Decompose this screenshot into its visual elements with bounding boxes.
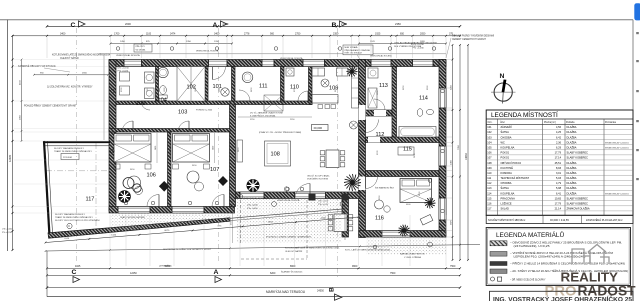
svg-text:– OBVODOVÉ ZDIVO Z HELUZ FAMI: – OBVODOVÉ ZDIVO Z HELUZ FAMILY 25 BROUŠ…	[510, 242, 622, 245]
summary strip below room legend	[486, 215, 633, 223]
dimension line along awning	[46, 217, 359, 243]
svg-text:ŠIK RAMPA VIZ ŘEZ: ŠIK RAMPA VIZ ŘEZ	[169, 140, 172, 158]
svg-text:SLABÝ KOBEREC: SLABÝ KOBEREC	[567, 196, 589, 200]
svg-text:(247x250x249), U=0,25: (247x250x249), U=0,25	[514, 246, 551, 248]
svg-text:A: A	[213, 22, 218, 29]
svg-text:110: 110	[290, 85, 299, 91]
svg-text:N: N	[500, 73, 505, 80]
kitchen island	[310, 95, 338, 104]
terrace dashed boundary south	[241, 258, 307, 260]
svg-text:2650: 2650	[82, 73, 88, 75]
terrace door swing	[295, 184, 310, 199]
partition rooms 106/107	[168, 132, 172, 207]
svg-text:114: 114	[419, 96, 428, 102]
fixture room 110	[286, 68, 294, 76]
svg-text:115: 115	[403, 147, 412, 153]
right wing wall below 113	[366, 110, 393, 116]
svg-text:108: 108	[271, 152, 280, 158]
partition 102/101	[205, 67, 208, 102]
svg-text:1925: 1925	[375, 32, 381, 35]
brushed concrete strip below room 116	[366, 237, 446, 255]
svg-text:UTe -0,020: UTe -0,020	[247, 205, 258, 207]
svg-text:V CEM. STĚRKA: V CEM. STĚRKA	[404, 256, 421, 259]
prilozky box top	[134, 44, 152, 52]
washer room 113	[368, 68, 378, 78]
partition 110/109	[309, 67, 313, 105]
svg-text:1100: 1100	[146, 32, 152, 35]
double bed room 106	[114, 134, 151, 163]
svg-text:PŘEDZAHRÁDKY OSÁZENÁ: PŘEDZAHRÁDKY OSÁZENÁ	[345, 49, 371, 52]
svg-text:PODHLED Z DESEK CEMENT CEMENTO: PODHLED Z DESEK CEMENT CEMENTOVIT	[266, 237, 312, 239]
svg-text:PODIUM: PODIUM	[63, 157, 72, 159]
svg-text:17,14: 17,14	[555, 156, 562, 160]
left secondary dimension line	[21, 60, 23, 142]
marker circle-cross kitchen corner	[321, 79, 329, 87]
svg-text:C: C	[72, 269, 77, 276]
interior spine wall	[359, 60, 366, 238]
svg-text:SLABÝ KOBEREC: SLABÝ KOBEREC	[567, 151, 589, 155]
svg-text:113: 113	[487, 186, 492, 190]
bedside tables room 106	[114, 164, 120, 169]
material row 2 - vnitrni nosne zdivo	[490, 252, 507, 257]
entrance door swing	[213, 67, 226, 80]
exterior wall south-west (rooms 106-107)	[109, 207, 235, 214]
dark diamond room 107	[218, 176, 228, 186]
exterior wall west	[109, 60, 116, 211]
side table circles room 116	[375, 200, 384, 209]
svg-text:POKOJ: POKOJ	[501, 151, 510, 155]
pergola column line east	[344, 201, 346, 241]
plant room 116 north-east	[425, 198, 436, 209]
svg-text:900: 900	[270, 32, 275, 35]
window room 113 north	[371, 60, 391, 67]
dining table living room	[326, 150, 339, 168]
svg-text:C: C	[71, 22, 76, 29]
svg-text:116: 116	[375, 216, 384, 222]
door swing room 105	[141, 101, 150, 110]
exterior wall north	[109, 60, 446, 67]
svg-text:8050: 8050	[165, 265, 171, 268]
svg-text:2778: 2778	[244, 32, 250, 35]
terrace west dimension 4500	[232, 200, 234, 243]
garage north wall	[44, 141, 110, 143]
svg-text:ŠLAPÁKY ŽK 63/25/25: ŠLAPÁKY ŽK 63/25/25	[281, 270, 303, 273]
svg-text:103: 103	[178, 110, 187, 116]
svg-text:PTe +0,45: PTe +0,45	[318, 204, 329, 206]
bench room 116 corner	[420, 214, 433, 225]
entrance door opening 101	[209, 60, 228, 67]
partition 113/114	[392, 67, 397, 143]
svg-text:2950: 2950	[19, 114, 21, 120]
witness lines bottom dimensions	[109, 215, 111, 266]
svg-text:KOMORA: KOMORA	[501, 171, 513, 175]
material row 5 - sloupky	[491, 277, 495, 281]
svg-text:UTe +4,250: UTe +4,250	[413, 44, 425, 46]
svg-text:110: 110	[487, 171, 492, 175]
svg-text:6200: 6200	[270, 272, 276, 275]
svg-text:106: 106	[147, 173, 156, 179]
sheet top frame line	[0, 19, 633, 21]
window kitchen 109 north	[303, 60, 325, 67]
svg-text:(PRAH VČ. ZDI + NOSNÝ PŘEKLENU: (PRAH VČ. ZDI + NOSNÝ PŘEKLENUTÍ RÁM)	[259, 131, 301, 134]
exterior wall south (living room)	[230, 192, 360, 199]
witness lines left dimensions	[14, 59, 109, 61]
svg-text:3,01: 3,01	[556, 171, 562, 175]
svg-text:PRACOVNA: PRACOVNA	[501, 196, 516, 200]
dryer room 105	[120, 86, 130, 95]
svg-text:POKOJ: POKOJ	[501, 156, 510, 160]
svg-text:MLAT ÚPRAVA: MLAT ÚPRAVA	[345, 46, 359, 49]
window room 105 north	[124, 60, 142, 67]
svg-text:POHLED h= 2600: POHLED h= 2600	[196, 110, 213, 112]
svg-text:TRÁMY ZE SMRKOVÉHO DŘEVA KŮLY: TRÁMY ZE SMRKOVÉHO DŘEVA KŮLY	[54, 150, 92, 153]
window room 115 east	[439, 146, 446, 166]
kitchen island stools	[318, 105, 323, 109]
svg-text:114: 114	[487, 191, 492, 195]
svg-text:102: 102	[487, 130, 492, 134]
window room 114 east	[439, 88, 446, 108]
sheet left frame line	[7, 20, 9, 251]
svg-text:OBÝVACÍ POKOJ: OBÝVACÍ POKOJ	[501, 161, 522, 165]
svg-text:111: 111	[259, 84, 268, 90]
interior dim line room 106	[156, 133, 158, 163]
door swing room 110	[298, 91, 308, 101]
svg-text:MARKÝZA NAD TERASOU: MARKÝZA NAD TERASOU	[266, 290, 306, 294]
svg-text:SLABÝ KOBEREC: SLABÝ KOBEREC	[567, 202, 589, 206]
svg-text:117: 117	[487, 207, 492, 211]
left overall dimension line	[12, 36, 14, 250]
svg-text:REALITY: REALITY	[561, 270, 619, 285]
window room 106 south	[118, 207, 150, 214]
door opening wall below 113	[374, 110, 386, 116]
terrace paving stipple (in front of living room)	[237, 199, 342, 243]
svg-text:SLOUPY ZAHRADNÍ PERGOLY: SLOUPY ZAHRADNÍ PERGOLY	[55, 213, 86, 216]
svg-text:KERAM.OBKLAD V=2000mm: KERAM.OBKLAD V=2000mm	[605, 141, 629, 144]
terrace pergola column west	[309, 194, 316, 201]
door opening wall below 112	[368, 137, 380, 143]
marker K circle garage	[67, 223, 72, 228]
closet X corridor east	[264, 95, 283, 111]
svg-text:650: 650	[400, 32, 405, 35]
svg-text:1340: 1340	[111, 234, 117, 236]
vertical line bottom-left	[46, 251, 48, 297]
svg-text:Ozn.: Ozn.	[488, 122, 493, 124]
outdoor table terrace	[334, 214, 347, 232]
svg-text:OLEJOVÝ NÁTĚR: OLEJOVÝ NÁTĚR	[60, 57, 79, 60]
wall between room 107 and living room	[230, 101, 236, 207]
svg-text:104: 104	[158, 98, 167, 104]
section line A (dash-dot)	[218, 28, 220, 263]
svg-text:2350: 2350	[395, 22, 401, 26]
svg-text:PTe +4,030: PTe +4,030	[413, 48, 425, 50]
door opening spine to corridor 112	[359, 105, 366, 120]
marker circles terrace	[272, 202, 277, 207]
svg-text:112: 112	[376, 132, 385, 138]
rug living room 108	[265, 141, 291, 166]
svg-text:PTe -0,450: PTe -0,450	[247, 208, 258, 210]
material legend box LEGENDA MATERIALU	[486, 228, 630, 286]
right dimension line 3	[467, 45, 469, 260]
door swing room 106 terrace	[147, 195, 159, 207]
spare wheels room 117	[123, 178, 134, 189]
large plant near terrace door	[344, 174, 361, 191]
svg-text:8600: 8600	[290, 265, 296, 268]
svg-text:Účel: Účel	[500, 121, 505, 124]
svg-text:±0,000: ±0,000	[314, 126, 323, 130]
double bed room 107	[173, 134, 210, 163]
terrace dashed boundary east	[306, 200, 308, 259]
svg-text:17,79: 17,79	[555, 202, 562, 206]
door swing room 107 terrace	[212, 195, 224, 207]
svg-text:CEMENT CEMENTOVIT GRANIT: CEMENT CEMENTOVIT GRANIT	[452, 38, 487, 41]
svg-text:104: 104	[487, 140, 492, 144]
svg-text:112: 112	[487, 181, 492, 185]
svg-text:101: 101	[487, 125, 492, 129]
window living room south	[240, 192, 264, 199]
svg-text:Plocha [m²]: Plocha [m²]	[544, 121, 556, 124]
bathtub room 114	[399, 127, 436, 138]
witness lines top dimensions	[46, 37, 48, 58]
svg-text:105: 105	[487, 145, 492, 149]
sheet right frame line	[632, 20, 634, 301]
door swing room 106 north	[122, 121, 133, 132]
svg-text:3400: 3400	[213, 146, 215, 150]
svg-text:3400: 3400	[214, 32, 220, 35]
terrace paving wedge (in front of rooms 106/107)	[110, 213, 230, 233]
svg-text:4125: 4125	[64, 238, 70, 240]
house logo watermark	[572, 245, 609, 265]
svg-text:VENKOVNÍ AL ROLETA: VENKOVNÍ AL ROLETA	[116, 54, 140, 57]
dimension line top third	[111, 43, 233, 45]
svg-text:Poznámka: Poznámka	[605, 122, 617, 124]
svg-text:UTe +0,00: UTe +0,00	[318, 201, 329, 203]
svg-text:4025: 4025	[75, 265, 81, 268]
svg-text:106: 106	[487, 151, 492, 155]
cut-off text specks right margin	[636, 32, 639, 34]
wall south of rooms 110/111	[234, 101, 312, 105]
svg-text:– PŘÍČKY Z HELUZ 14 BROUŠENÁ: – PŘÍČKY Z HELUZ 14 BROUŠENÁ S CELOPLOŠN…	[510, 263, 625, 266]
svg-text:K OSE PŘÍČKY, VIZ DETAIL: K OSE PŘÍČKY, VIZ DETAIL	[250, 115, 276, 118]
svg-text:6075: 6075	[164, 230, 170, 232]
dark spoked wheel living room	[247, 179, 260, 192]
svg-text:7050: 7050	[458, 144, 460, 150]
plant near kitchen	[347, 66, 358, 77]
washer room 105	[120, 72, 130, 81]
svg-text:8,93: 8,93	[556, 166, 562, 170]
plant room 116 south wall	[398, 225, 410, 237]
svg-text:POHLED ŘÍMSY CEMENT CEMENTOVIT: POHLED ŘÍMSY CEMENT CEMENTOVIT GRANIT	[24, 105, 77, 108]
svg-text:2460: 2460	[451, 159, 453, 165]
section line B (dash-dot)	[337, 28, 339, 280]
north compass	[491, 73, 516, 103]
svg-text:PŘÍLOŽKY: PŘÍLOŽKY	[136, 45, 146, 48]
dark spoked wheel room 117	[118, 190, 131, 203]
exterior wall east	[439, 60, 446, 238]
svg-text:SLABÝ KOBEREC: SLABÝ KOBEREC	[567, 156, 589, 160]
svg-text:2050: 2050	[420, 32, 426, 35]
svg-text:PTe -0,150: PTe -0,150	[2, 232, 13, 234]
svg-text:1700: 1700	[114, 32, 120, 35]
corridor 103 north wall	[116, 101, 230, 105]
svg-text:7500: 7500	[450, 265, 456, 268]
door opening spine to room 116	[359, 177, 366, 191]
tv cabinet living room	[237, 140, 243, 162]
svg-text:KOTL. LATĚ ZE SMRKOVÉHO MODŘÍN: KOTL. LATĚ ZE SMRKOVÉHO MODŘÍNU 63/34	[345, 249, 391, 252]
svg-text:CHODBA: CHODBA	[501, 181, 512, 185]
door swing room 116	[366, 177, 378, 189]
svg-text:PTe -0,020: PTe -0,020	[118, 71, 129, 73]
svg-text:UTe +0,150: UTe +0,150	[118, 67, 130, 69]
svg-text:107: 107	[487, 156, 492, 160]
right wing wall below 112/114	[366, 137, 440, 143]
svg-text:6,41: 6,41	[556, 191, 562, 195]
svg-text:111: 111	[487, 176, 491, 180]
room legend table LEGENDA MISTNOSTI	[486, 110, 633, 215]
svg-text:2750: 2750	[295, 32, 301, 35]
svg-text:2250: 2250	[268, 222, 274, 224]
svg-text:CHODBA: CHODBA	[501, 135, 512, 139]
bottom overall dimension line	[47, 287, 460, 289]
window room 116 south	[382, 231, 410, 238]
svg-text:117: 117	[86, 197, 95, 203]
exterior wall south (room 116)	[359, 231, 447, 238]
witness lines right dimensions	[446, 59, 452, 61]
door swing room 114	[410, 133, 420, 143]
svg-text:12480: 12480	[8, 154, 12, 162]
podium box	[61, 154, 79, 160]
svg-text:LEGENDA MÍSTNOSTÍ: LEGENDA MÍSTNOSTÍ	[491, 110, 558, 119]
right dimension line 2	[459, 45, 461, 260]
svg-text:101: 101	[213, 84, 222, 90]
svg-text:7500: 7500	[390, 272, 396, 275]
built-in wardrobe room 102	[177, 67, 205, 102]
svg-text:TRÁMY ZE SMRKOVÉHO DŘEVA KŮLY: TRÁMY ZE SMRKOVÉHO DŘEVA KŮLY	[55, 216, 93, 219]
svg-text:B: B	[332, 22, 337, 29]
kitchen counter unit 2 room 109	[337, 68, 349, 76]
garage axis lines	[95, 143, 97, 228]
dark diamond room 106	[159, 181, 170, 192]
svg-text:5,98: 5,98	[556, 186, 562, 190]
svg-text:4,56: 4,56	[556, 125, 562, 129]
svg-text:115: 115	[487, 196, 492, 200]
svg-text:3400: 3400	[155, 146, 157, 150]
material row 4 - ak steny	[490, 269, 507, 273]
marker circle living south	[284, 187, 288, 191]
svg-text:21,14: 21,14	[555, 207, 562, 211]
svg-text:1450: 1450	[321, 217, 327, 219]
svg-text:2350: 2350	[333, 32, 339, 35]
svg-text:KVĚT. VIZ SITUACE: KVĚT. VIZ SITUACE	[345, 52, 363, 55]
svg-text:103: 103	[487, 135, 492, 139]
corridor 103 south wall	[109, 129, 230, 133]
svg-text:108: 108	[487, 161, 492, 165]
svg-text:1200: 1200	[214, 41, 220, 43]
svg-text:SLOUPY JSOU KOTVENY KD PRO ZPE: SLOUPY JSOU KOTVENY KD PRO ZPEVNĚNÍ	[55, 219, 100, 222]
desk room 115	[398, 147, 414, 155]
svg-text:– VNITŘNÍ NOSNÉ ZDIVO Z HELUZ: – VNITŘNÍ NOSNÉ ZDIVO Z HELUZ 20 A 24 BR…	[510, 252, 613, 255]
svg-text:3474: 3474	[170, 32, 176, 35]
svg-text:109: 109	[487, 166, 492, 170]
svg-text:SLOUPY ZAHRADNÍ PERGOLY: SLOUPY ZAHRADNÍ PERGOLY	[54, 147, 85, 150]
svg-text:2000: 2000	[125, 22, 131, 26]
svg-text:KARTÁČOVANÝ BETON: KARTÁČOVANÝ BETON	[400, 253, 425, 256]
svg-text:4,25: 4,25	[556, 130, 562, 134]
round table room 107	[187, 171, 199, 183]
svg-text:±0,000 = 412,55: ±0,000 = 412,55	[550, 218, 569, 222]
awning edge thin line continuation	[230, 209, 345, 219]
dimension line top right wing	[359, 43, 446, 45]
door swing room 113	[374, 99, 385, 110]
door swing room 111	[239, 90, 250, 101]
window room 111 north	[262, 60, 274, 67]
window room 116 east	[439, 198, 446, 220]
svg-text:VENKOVNÍ AL ROLETA: VENKOVNÍ AL ROLETA	[277, 199, 300, 202]
svg-text:OLEJOVÝ NÁTĚR: OLEJOVÝ NÁTĚR	[285, 250, 303, 253]
svg-text:A: A	[214, 269, 219, 276]
toilet room 114	[417, 109, 423, 117]
svg-text:107: 107	[210, 167, 219, 173]
bottom dimension line 2	[47, 274, 460, 276]
svg-text:3870: 3870	[451, 219, 453, 225]
plus minus zero box	[312, 125, 329, 131]
terrace pergola column east	[342, 194, 349, 201]
closet room 113	[368, 88, 377, 108]
blue UI button top-right	[634, 3, 640, 20]
round table room 106	[128, 176, 141, 189]
svg-text:109: 109	[329, 86, 338, 92]
sink unit 2 room 105	[145, 88, 155, 99]
terrace door living room	[295, 192, 326, 199]
svg-text:ŠIK RAMPA VIZ ŘEZ: ŠIK RAMPA VIZ ŘEZ	[375, 187, 395, 190]
svg-text:LEPIDLEM P10, (200x497x249) A: LEPIDLEM P10, (200x497x249) A (240x250x2…	[514, 255, 586, 258]
material row 1 - obvodove zdivo	[490, 241, 507, 246]
svg-text:DV. VČ. ZÁRUBNĚ OSADIT ROVNĚ: DV. VČ. ZÁRUBNĚ OSADIT ROVNĚ	[250, 112, 283, 115]
svg-text:3250: 3250	[451, 84, 453, 90]
svg-text:VENKOVNÍ AL ROLETA: VENKOVNÍ AL ROLETA	[370, 55, 392, 58]
bottom dimension line 1	[47, 267, 460, 269]
kitchen counter along spine wall	[352, 68, 359, 108]
partition 111/110	[281, 67, 285, 105]
svg-text:6,29: 6,29	[556, 145, 562, 149]
svg-text:12250: 12250	[130, 272, 137, 275]
right dimension line 1	[452, 45, 454, 260]
garage south wall on awning slant	[48, 218, 230, 239]
svg-text:10830: 10830	[465, 153, 468, 160]
svg-text:KERAM.OBKLAD V=2000mm: KERAM.OBKLAD V=2000mm	[605, 192, 629, 195]
svg-text:TECHNICKÁ MÍSTNOST: TECHNICKÁ MÍSTNOST	[501, 176, 530, 180]
reference marker circles	[116, 47, 120, 51]
svg-text:B: B	[329, 287, 336, 292]
svg-text:2,36: 2,36	[556, 140, 562, 144]
partition 104/111	[232, 67, 236, 102]
svg-text:6,42: 6,42	[556, 135, 562, 139]
svg-text:UTe +0,250: UTe +0,250	[2, 229, 13, 231]
small dimension line left of wall	[34, 74, 108, 76]
svg-text:24550: 24550	[317, 289, 325, 292]
kitchen counter unit 1 room 109	[312, 68, 325, 76]
svg-text:1570: 1570	[370, 41, 376, 43]
bedside tables room 107	[173, 164, 179, 169]
svg-text:113: 113	[379, 83, 388, 89]
svg-text:Podlaha: Podlaha	[566, 122, 575, 124]
svg-text:LEGENDA MATERIÁLŮ: LEGENDA MATERIÁLŮ	[496, 230, 564, 239]
toilet room 104	[160, 86, 167, 95]
svg-text:WC: WC	[501, 140, 505, 144]
washbasin room 114	[426, 109, 433, 114]
door swing room 107 north	[178, 121, 189, 132]
floor drain marker room 101	[221, 88, 229, 96]
pergola column dashed drop line west	[240, 200, 242, 245]
